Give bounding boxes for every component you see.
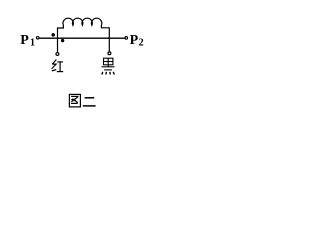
caption er (two) character xyxy=(83,98,96,106)
wire right tap down xyxy=(108,38,110,52)
svg-text:P: P xyxy=(130,33,139,48)
wire left tap down xyxy=(57,38,59,52)
terminal red probe xyxy=(56,53,59,56)
wire P1 to P2 xyxy=(39,37,124,39)
terminal P2 xyxy=(125,37,128,40)
terminal black probe xyxy=(108,52,111,55)
svg-text:1: 1 xyxy=(30,38,35,49)
svg-text:2: 2 xyxy=(139,38,144,49)
terminal P1 xyxy=(36,37,39,40)
polarity dot left xyxy=(51,33,55,37)
caption tu (figure) character xyxy=(69,94,80,107)
inductor L1 xyxy=(58,18,110,38)
polarity dot right xyxy=(61,39,64,42)
svg-text:P: P xyxy=(20,33,29,48)
label hong (red) character xyxy=(52,60,64,72)
label hei (black) character xyxy=(102,58,115,74)
